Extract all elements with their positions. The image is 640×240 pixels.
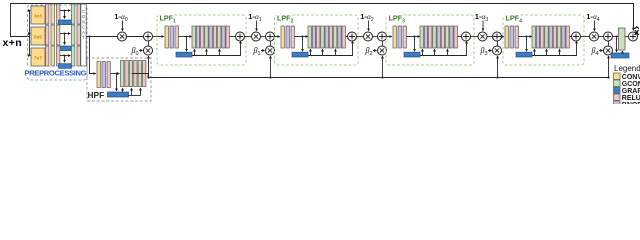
HPF dashed box xyxy=(87,58,151,101)
wire top feedback line to output adder xyxy=(11,4,634,31)
svg-text:HPF: HPF xyxy=(88,90,105,100)
wire feedback up into beta2 xyxy=(381,56,383,79)
wire branch to output graph bar xyxy=(616,36,618,52)
LPF4 bnorm bar 1 xyxy=(536,26,539,48)
LPF4 label xyxy=(505,13,523,25)
svg-text:T: T xyxy=(82,35,85,40)
concat block xyxy=(81,4,86,66)
conv kernel square 7x7 row 3 xyxy=(31,48,45,66)
LPF2 gconv bar 2 xyxy=(321,26,324,48)
output gconv bar xyxy=(619,28,626,50)
adder after LPF0 xyxy=(144,32,153,41)
LPF1 dashed box xyxy=(157,15,246,65)
LPF3 relu bar 2 xyxy=(441,26,444,48)
LPF3 graph arrow 3 xyxy=(447,49,449,55)
wire branch row 3 down to graph bar xyxy=(64,55,66,63)
graph bar (blue) row 3 xyxy=(59,64,72,69)
relu bar 3 row 2 xyxy=(77,25,80,45)
LPF2 wire to skip adder xyxy=(345,36,347,38)
LPF1 bnorm bar 1 xyxy=(196,26,199,48)
LPF2 graph arrow 3 xyxy=(335,49,337,55)
wire beta2 arrow xyxy=(373,50,377,52)
wire alpha4 arrow down xyxy=(594,21,596,31)
LPF1 bnorm bar 3 xyxy=(222,26,225,48)
LPF3 bnorm bar xyxy=(398,26,401,48)
svg-text:GCONV: GCONV xyxy=(622,81,640,88)
LPF1 gconv bar 3 xyxy=(218,26,221,48)
graph bar (blue) row 1 xyxy=(59,20,72,25)
LPF3 dashed box xyxy=(386,15,474,65)
LPF2 dashed box xyxy=(275,15,359,65)
LPF3 wire mid xyxy=(406,36,419,38)
LPF2 bnorm bar 2 xyxy=(325,26,328,48)
wire HPF graph feed xyxy=(129,95,141,97)
legend BNORM xyxy=(614,101,640,109)
LPF4 graph arrow 3 xyxy=(559,49,561,55)
LPF3 gconv bar 3 xyxy=(446,26,449,48)
svg-text:PREPROCESSING: PREPROCESSING xyxy=(25,69,87,78)
HPF graph bar (blue) xyxy=(108,92,129,97)
LPF3 wire to skip adder xyxy=(457,36,461,38)
adder after LPF1 xyxy=(266,32,275,41)
label 1-alpha3 xyxy=(475,12,489,23)
label 1-alpha2 xyxy=(360,12,374,23)
LPF4 wire mid xyxy=(518,36,531,38)
wire row 1 to gconv xyxy=(60,10,70,12)
LPF3 bnorm bar 2 xyxy=(437,26,440,48)
label beta0 xyxy=(130,46,138,57)
output graph bar (blue) xyxy=(611,53,629,58)
wire mul4 to add4 xyxy=(598,36,603,38)
LPF3 graph bar (blue) xyxy=(404,52,420,57)
multiplier 1-alpha4 xyxy=(590,32,599,41)
LPF4 gconv bar 1 xyxy=(532,26,535,48)
final output adder xyxy=(629,32,638,41)
wire adder4 to output gconv xyxy=(612,36,619,38)
svg-text:GRAPH: GRAPH xyxy=(622,88,640,95)
LPF1 graph line xyxy=(192,41,241,55)
wire input vertical to top feedback xyxy=(10,3,12,37)
wire branch row 2 down to graph bar xyxy=(64,33,66,45)
LPF1 bnorm bar xyxy=(170,26,173,48)
legend GRAPH xyxy=(614,87,640,95)
conv bar row 3 xyxy=(51,46,54,66)
wire into conv kernel row 3 xyxy=(29,55,32,57)
svg-text:7x7: 7x7 xyxy=(34,56,42,62)
LPF4 graph bar (blue) xyxy=(516,52,532,57)
LPF4 gconv bar 2 xyxy=(545,26,548,48)
svg-text:3x3: 3x3 xyxy=(34,14,42,20)
LPF2 conv bar xyxy=(281,26,284,48)
LPF2 label xyxy=(276,13,294,25)
label 1-alpha0 xyxy=(114,12,128,23)
relu bar 2 row 1 xyxy=(57,4,60,24)
LPF2 graph bar (blue) xyxy=(292,52,308,57)
LPF1 graph arrow 1 xyxy=(194,49,196,55)
wire mul3 to add3 xyxy=(487,36,493,38)
LPF2 graph arrow 2 xyxy=(322,49,324,55)
LPF3 gconv bar 2 xyxy=(433,26,436,48)
wire into conv kernel row 1 xyxy=(29,10,32,12)
wire alpha3 arrow down xyxy=(482,21,484,31)
LPF4 dashed box xyxy=(503,15,584,65)
LPF2 gconv bar 1 xyxy=(308,26,311,48)
label 1-alpha4 xyxy=(586,12,600,23)
LPF2 bnorm bar xyxy=(286,26,289,48)
wire bottom feedback line xyxy=(148,77,608,79)
HPF gconv bar 2 xyxy=(129,61,132,87)
LPF1 conv bar xyxy=(165,26,168,48)
wire mul0 to add0 xyxy=(126,36,143,38)
wire alpha1 arrow down xyxy=(256,21,258,31)
gconv bar row 2 xyxy=(72,25,75,45)
LPF1 wire mid xyxy=(178,36,191,38)
wire row 3 to gconv xyxy=(60,55,70,57)
multiplier beta4 xyxy=(604,46,613,55)
svg-text:CONV: CONV xyxy=(622,74,640,81)
wire HPF mid xyxy=(111,73,120,75)
LPF3 bnorm bar 3 xyxy=(450,26,453,48)
HPF label xyxy=(88,90,105,100)
LPF1 relu bar 1 xyxy=(201,26,204,48)
label beta3 xyxy=(479,46,487,57)
LPF4 graph arrow 1 xyxy=(534,49,536,55)
adder after LPF4 xyxy=(604,32,613,41)
LPF1 graph bar (blue) xyxy=(176,52,192,57)
wire feedback up into beta4 xyxy=(607,56,609,79)
LPF2 branch to graph bar xyxy=(302,36,304,52)
wire mul1 to add1 xyxy=(260,36,265,38)
LPF1 relu bar 3 xyxy=(226,26,229,48)
LPF1 relu bar 2 xyxy=(213,26,216,48)
wire LPF4 out xyxy=(580,36,589,38)
conv kernel square 5x5 row 2 xyxy=(31,27,45,45)
LPF1 label xyxy=(159,13,177,25)
LPF4 graph arrow 2 xyxy=(546,49,548,55)
wire HPF graph arrow 1 xyxy=(122,88,124,92)
LPF3 graph line xyxy=(420,41,467,55)
wire concat output main line xyxy=(86,36,117,38)
legend RELU xyxy=(614,94,640,102)
svg-text:Legend: Legend xyxy=(614,64,640,73)
conv bar row 1 xyxy=(51,4,54,24)
wire main input into preprocessing xyxy=(10,36,30,38)
multiplier beta1 xyxy=(266,46,275,55)
multiplier 1-alpha2 xyxy=(364,32,373,41)
LPF2 relu bar 2 xyxy=(329,26,332,48)
multiplier 1-alpha1 xyxy=(252,32,261,41)
LPF3 relu bar 3 xyxy=(454,26,457,48)
wire LPF1 out xyxy=(244,36,251,38)
wire beta3 arrow xyxy=(488,50,492,52)
LPF1 relu bar xyxy=(175,26,178,48)
wire HPF graph arrow 2 xyxy=(131,88,133,95)
LPF1 graph arrow 2 xyxy=(206,49,208,55)
LPF1 graph arrow 3 xyxy=(219,49,221,55)
relu bar row 1 xyxy=(46,4,49,24)
HPF conv bar xyxy=(97,62,100,88)
legend CONV xyxy=(614,73,640,81)
LPF3 graph arrow 2 xyxy=(434,49,436,55)
LPF4 bnorm bar xyxy=(510,26,513,48)
wire mul2 to add2 xyxy=(372,36,377,38)
LPF2 bnorm bar 3 xyxy=(338,26,341,48)
adder after LPF3 xyxy=(493,32,502,41)
wire feedback up into beta0 xyxy=(147,56,149,79)
preprocessing dashed box xyxy=(28,5,88,80)
svg-text:x+n: x+n xyxy=(3,37,23,49)
wire alpha0 arrow down xyxy=(122,21,124,31)
LPF2 wire mid xyxy=(294,36,307,38)
wire into LPF2 xyxy=(268,36,280,38)
wire adder2 to beta multiplier xyxy=(382,41,384,46)
wire adder0 to beta multiplier xyxy=(148,41,150,46)
LPF3 relu bar xyxy=(403,26,406,48)
wire branch down to HPF xyxy=(89,36,96,74)
HPF relu bar 1 xyxy=(125,61,128,87)
preprocessing label xyxy=(24,67,87,78)
LPF3 branch to graph bar xyxy=(414,36,416,52)
wire feedback up into beta1 xyxy=(269,56,271,79)
HPF gconv bar 1 xyxy=(121,61,124,87)
LPF1 branch to graph bar xyxy=(186,36,188,52)
LPF4 graph line xyxy=(532,41,577,55)
wire into LPF3 xyxy=(380,36,392,38)
wire HPF output to feedback line xyxy=(132,74,148,78)
label beta2 xyxy=(364,46,372,57)
LPF1 skip adder xyxy=(236,32,245,41)
LPF4 relu bar xyxy=(515,26,518,48)
legend title xyxy=(614,64,640,73)
LPF3 conv bar xyxy=(393,26,396,48)
wire into conv kernel row 2 xyxy=(29,33,32,35)
LPF4 relu bar 3 xyxy=(566,26,569,48)
conv bar row 2 xyxy=(51,25,54,45)
LPF1 wire to skip adder xyxy=(229,36,235,38)
LPF1 gconv bar 1 xyxy=(192,26,195,48)
wire alpha2 arrow down xyxy=(368,21,370,31)
svg-text:RELU: RELU xyxy=(622,95,640,102)
LPF4 gconv bar 3 xyxy=(558,26,561,48)
LPF3 label xyxy=(388,13,406,25)
node x-hat output label xyxy=(634,27,640,38)
LPF4 conv bar xyxy=(505,26,508,48)
LPF4 relu bar 2 xyxy=(553,26,556,48)
wire beta4 arrow xyxy=(599,50,603,52)
HPF relu bar 2 xyxy=(134,61,137,87)
relu bar row 3 xyxy=(46,46,49,66)
wire adder1 to beta multiplier xyxy=(270,41,272,46)
HPF relu bar xyxy=(107,62,110,88)
wire preprocessing input splitter xyxy=(29,11,31,56)
wire LPF2 out xyxy=(356,36,363,38)
LPF1 bnorm bar 2 xyxy=(209,26,212,48)
LPF2 skip adder xyxy=(348,32,357,41)
LPF3 gconv bar 1 xyxy=(420,26,423,48)
wire feedback up into beta3 xyxy=(496,56,498,79)
gconv bar row 1 xyxy=(72,4,75,24)
LPF4 branch to graph bar xyxy=(526,36,528,52)
wire into LPF1 xyxy=(152,36,164,38)
LPF3 graph arrow 1 xyxy=(422,49,424,55)
HPF gconv bar 3 xyxy=(138,61,141,87)
LPF2 graph arrow 1 xyxy=(310,49,312,55)
adder after LPF2 xyxy=(378,32,387,41)
multiplier beta3 xyxy=(493,46,502,55)
HPF bnorm bar xyxy=(102,62,105,88)
svg-text:5x5: 5x5 xyxy=(34,35,42,41)
LPF4 wire to skip adder xyxy=(569,36,571,38)
multiplier beta2 xyxy=(378,46,387,55)
wire adder4 to beta multiplier xyxy=(608,41,610,46)
LPF3 skip adder xyxy=(462,32,471,41)
wire HPF graph arrow 3 xyxy=(140,88,142,95)
wire row 2 to gconv xyxy=(60,33,70,35)
LPF4 relu bar 1 xyxy=(541,26,544,48)
relu bar row 2 xyxy=(46,25,49,45)
LPF2 relu bar 1 xyxy=(317,26,320,48)
wire LPF3 out xyxy=(470,36,478,38)
wire into LPF4 xyxy=(492,36,504,38)
HPF relu bar 3 xyxy=(143,61,146,87)
multiplier 1-alpha0 xyxy=(118,32,127,41)
LPF1 gconv bar 2 xyxy=(205,26,208,48)
graph bar (blue) row 2 xyxy=(59,46,72,51)
relu bar 3 row 1 xyxy=(77,4,80,24)
LPF3 relu bar 1 xyxy=(429,26,432,48)
LPF4 bnorm bar 2 xyxy=(549,26,552,48)
wire graph into output gconv xyxy=(622,51,624,53)
LPF2 bnorm bar 1 xyxy=(312,26,315,48)
legend GCONV xyxy=(614,80,640,88)
wire beta0 arrow xyxy=(139,50,143,52)
label beta4 xyxy=(590,46,598,57)
wire branch row 1 down to graph bar xyxy=(64,10,66,19)
LPF2 gconv bar 3 xyxy=(334,26,337,48)
relu bar 2 row 3 xyxy=(57,46,60,66)
relu bar 2 row 2 xyxy=(57,25,60,45)
node x+n input label xyxy=(3,37,23,49)
wire adder3 to beta multiplier xyxy=(497,41,499,46)
multiplier beta0 xyxy=(144,46,153,55)
LPF3 bnorm bar 1 xyxy=(424,26,427,48)
LPF4 skip adder xyxy=(572,32,581,41)
multiplier 1-alpha3 xyxy=(478,32,487,41)
LPF2 relu bar xyxy=(291,26,294,48)
LPF4 bnorm bar 3 xyxy=(562,26,565,48)
LPF2 relu bar 3 xyxy=(342,26,345,48)
wire gconv to final adder xyxy=(625,36,629,38)
gconv bar row 3 xyxy=(72,46,75,66)
wire beta1 arrow xyxy=(261,50,265,52)
relu bar 3 row 3 xyxy=(77,46,80,66)
LPF2 graph line xyxy=(308,41,353,55)
label beta1 xyxy=(252,46,260,57)
svg-text:BNORM: BNORM xyxy=(622,102,640,104)
wire HPF branch to graph bar xyxy=(116,73,118,91)
conv kernel square 3x3 row 1 xyxy=(31,6,45,24)
label 1-alpha1 xyxy=(248,12,262,23)
